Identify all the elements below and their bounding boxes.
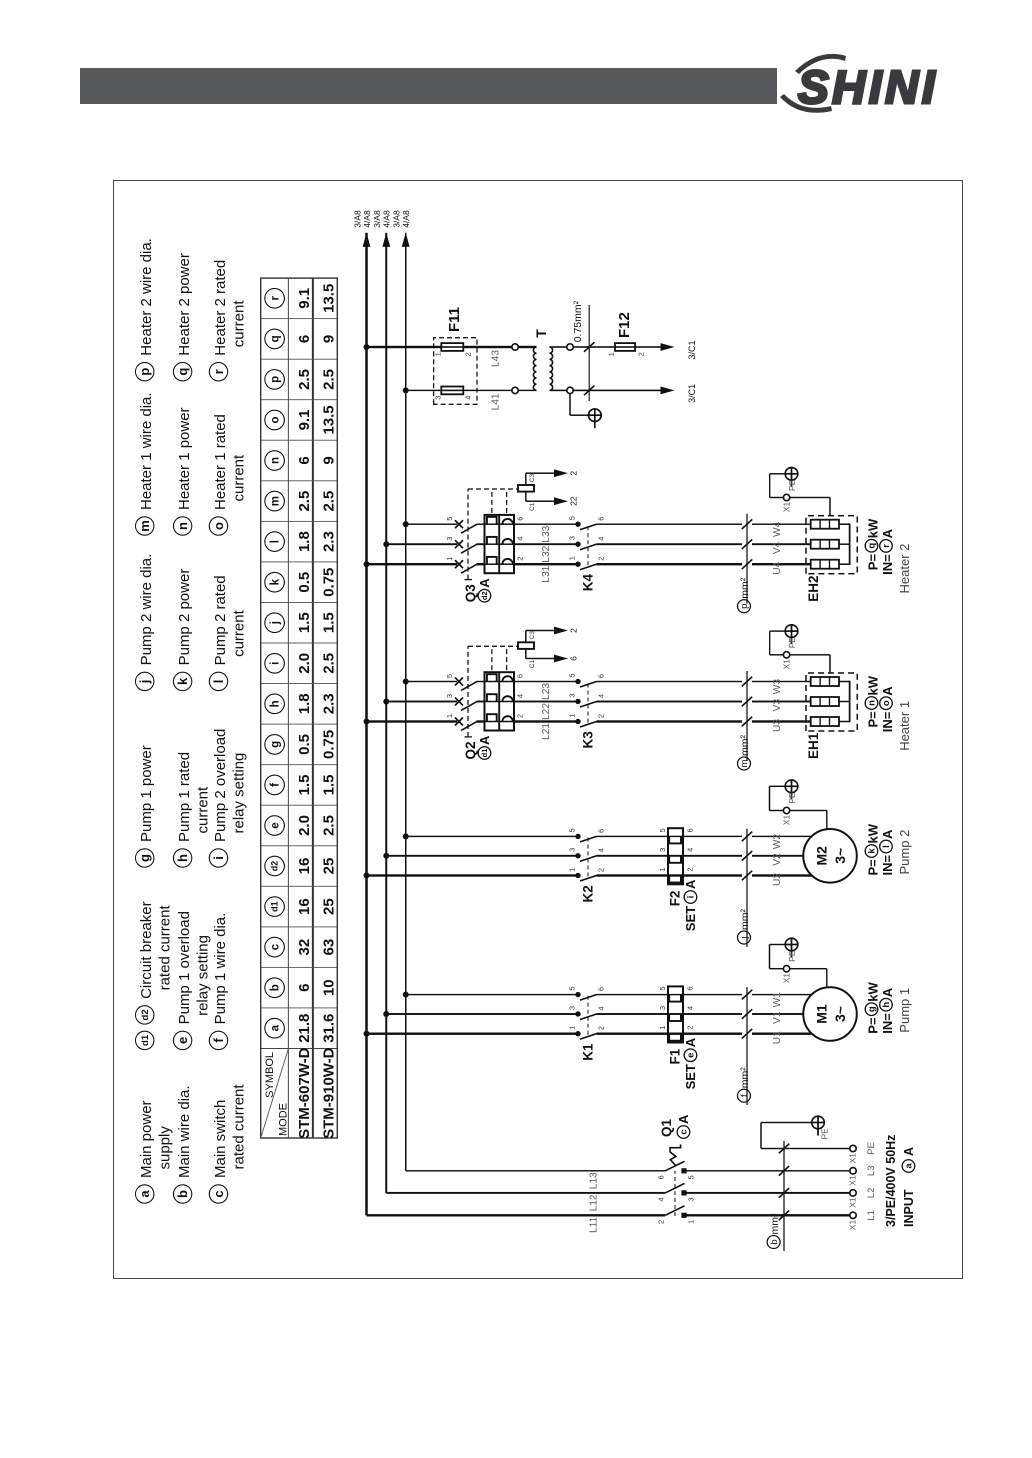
svg-text:1.8: 1.8 xyxy=(296,693,313,714)
motor M1 3~ xyxy=(803,987,857,1041)
svg-text:j: j xyxy=(137,680,152,685)
svg-text:q: q xyxy=(175,368,190,376)
svg-text:5: 5 xyxy=(568,987,577,991)
svg-text:K3: K3 xyxy=(581,731,596,749)
svg-text:a: a xyxy=(904,1163,915,1169)
legend item (g) Pump 1 power xyxy=(136,745,156,867)
svg-text:n: n xyxy=(175,522,190,530)
node: bus L11 off-page arrow 3/A8 4/A8 xyxy=(352,210,372,247)
svg-text:Main power: Main power xyxy=(138,1100,155,1178)
svg-text:3: 3 xyxy=(658,848,667,852)
svg-text:1.5: 1.5 xyxy=(296,774,313,795)
svg-text:r: r xyxy=(211,369,226,374)
header bar xyxy=(80,68,777,104)
svg-text:L31: L31 xyxy=(541,565,552,582)
svg-text:relay setting: relay setting xyxy=(230,753,247,834)
svg-text:6: 6 xyxy=(516,674,525,678)
label: pump 2 wire size (j)mm2 xyxy=(738,829,753,947)
svg-text:0.75mm²: 0.75mm² xyxy=(572,300,584,342)
label Q1 rated current (c)A xyxy=(659,1114,691,1138)
svg-text:5: 5 xyxy=(445,517,454,521)
svg-text:1: 1 xyxy=(568,867,577,871)
ground: transformer secondary earth xyxy=(570,394,601,429)
svg-text:U1: U1 xyxy=(772,1031,783,1044)
svg-text:U2: U2 xyxy=(772,873,783,886)
SHINI logo xyxy=(778,40,1032,130)
svg-text:2: 2 xyxy=(597,557,606,561)
svg-text:3~: 3~ xyxy=(832,1006,848,1022)
svg-text:A: A xyxy=(683,879,698,889)
svg-text:A: A xyxy=(880,829,895,839)
terminal X1 row, input L1 L2 L3 PE xyxy=(848,1142,878,1230)
svg-text:4: 4 xyxy=(657,1197,666,1201)
ground: heater EH1 earth xyxy=(785,625,798,648)
svg-text:2.5: 2.5 xyxy=(296,491,313,512)
svg-text:2.3: 2.3 xyxy=(320,531,337,552)
svg-text:V4: V4 xyxy=(772,541,783,554)
svg-text:P=: P= xyxy=(866,711,881,728)
svg-text:K2: K2 xyxy=(581,885,596,902)
svg-text:4: 4 xyxy=(597,537,606,541)
svg-text:W4: W4 xyxy=(772,521,783,537)
svg-text:L11: L11 xyxy=(589,1216,600,1233)
svg-text:X1: X1 xyxy=(782,973,792,984)
svg-text:21.8: 21.8 xyxy=(296,1014,313,1043)
svg-text:IN=: IN= xyxy=(880,554,895,575)
svg-text:Pump 1 wire dia.: Pump 1 wire dia. xyxy=(212,913,229,1025)
svg-text:2: 2 xyxy=(597,1026,606,1030)
transformer T xyxy=(512,344,573,394)
svg-text:0.75: 0.75 xyxy=(320,568,337,597)
svg-text:Pump 2 overload: Pump 2 overload xyxy=(212,729,229,842)
svg-text:kW: kW xyxy=(866,981,881,1001)
legend item (p) Heater 2 wire dia. xyxy=(136,238,156,381)
svg-text:relay setting: relay setting xyxy=(194,935,211,1016)
svg-text:c: c xyxy=(211,1190,226,1197)
svg-text:g: g xyxy=(270,741,282,748)
svg-text:M2: M2 xyxy=(814,846,830,866)
svg-text:13.5: 13.5 xyxy=(320,405,337,434)
svg-text:a: a xyxy=(137,1190,152,1198)
svg-text:L32: L32 xyxy=(541,545,552,562)
svg-text:V2: V2 xyxy=(772,853,783,866)
svg-text:2.5: 2.5 xyxy=(320,653,337,674)
svg-text:X1: X1 xyxy=(848,1197,858,1208)
svg-text:Main wire dia.: Main wire dia. xyxy=(176,1085,193,1178)
svg-text:P=: P= xyxy=(866,859,881,876)
svg-text:p: p xyxy=(739,604,750,609)
svg-text:2: 2 xyxy=(657,1220,666,1224)
overload relay F2 xyxy=(658,828,695,884)
legend item (b) Main wire dia. xyxy=(173,1085,193,1203)
svg-text:d2: d2 xyxy=(270,861,280,872)
svg-text:IN=: IN= xyxy=(880,855,895,876)
svg-text:Q2: Q2 xyxy=(463,741,478,759)
ground: input PE earth symbol xyxy=(812,1116,830,1139)
legend item (i) Pump 2 overload xyxy=(209,729,247,868)
svg-text:kW: kW xyxy=(866,518,881,538)
svg-text:3: 3 xyxy=(568,536,577,540)
svg-text:4/A8: 4/A8 xyxy=(362,210,372,228)
svg-text:5: 5 xyxy=(658,828,667,832)
svg-text:f: f xyxy=(270,783,282,787)
svg-text:M1: M1 xyxy=(814,1004,830,1024)
svg-text:INPUT: INPUT xyxy=(902,1189,916,1227)
svg-text:F11: F11 xyxy=(446,307,463,332)
schematic frame xyxy=(113,180,963,1279)
svg-text:2: 2 xyxy=(516,714,525,718)
svg-text:PE: PE xyxy=(787,479,797,491)
svg-text:p: p xyxy=(137,368,152,376)
contactor K2 (3-pole) xyxy=(568,828,606,881)
svg-text:j: j xyxy=(270,621,282,625)
ground: motor M2 earth xyxy=(785,780,798,804)
wire: control primary taps from buses xyxy=(364,344,512,393)
node: bus L12 off-page arrow 3/A8 4/A8 xyxy=(372,210,392,247)
svg-text:6: 6 xyxy=(516,517,525,521)
contactor K3 (3-pole) xyxy=(568,673,606,727)
label Q3 (d2)A xyxy=(463,578,492,603)
svg-text:3: 3 xyxy=(568,848,577,852)
label: pump 1 wire size (f)mm2 xyxy=(738,987,753,1105)
motor M2 3~ xyxy=(803,829,857,883)
svg-text:j: j xyxy=(739,936,750,939)
svg-text:r: r xyxy=(881,544,892,548)
ground: motor M1 earth xyxy=(785,938,798,962)
svg-text:SHINI: SHINI xyxy=(798,61,938,113)
svg-text:5: 5 xyxy=(568,516,577,520)
svg-text:6: 6 xyxy=(569,656,579,661)
svg-text:T: T xyxy=(533,329,549,338)
svg-text:3/C1: 3/C1 xyxy=(687,340,697,359)
svg-text:63: 63 xyxy=(320,939,337,956)
svg-text:10: 10 xyxy=(320,979,337,996)
svg-text:mm²: mm² xyxy=(769,1213,781,1234)
wire: bus L12 with input elbow xyxy=(386,233,665,1193)
legend item (n) Heater 1 power xyxy=(173,407,193,535)
svg-text:1.5: 1.5 xyxy=(296,612,313,633)
svg-text:Main switch: Main switch xyxy=(212,1100,229,1178)
table: model ratings (MODE/SYMBOL) xyxy=(261,278,338,1139)
svg-text:mm²: mm² xyxy=(739,909,751,930)
svg-text:d1: d1 xyxy=(480,749,489,758)
svg-text:2: 2 xyxy=(464,352,473,356)
svg-text:o: o xyxy=(881,700,892,706)
svg-text:2.5: 2.5 xyxy=(320,815,337,836)
svg-text:L1: L1 xyxy=(866,1210,877,1221)
svg-text:p: p xyxy=(270,376,282,383)
svg-text:31.6: 31.6 xyxy=(320,1014,337,1043)
svg-text:d2: d2 xyxy=(140,1009,151,1020)
legend item (q) Heater 2 power xyxy=(173,253,193,381)
svg-text:4: 4 xyxy=(686,1006,695,1010)
svg-text:0.75: 0.75 xyxy=(320,730,337,759)
contactor K4 (3-pole) xyxy=(568,516,606,570)
svg-text:C3: C3 xyxy=(529,474,536,483)
svg-text:4: 4 xyxy=(597,694,606,698)
svg-text:U4: U4 xyxy=(772,561,783,574)
svg-text:X1: X1 xyxy=(848,1175,858,1186)
svg-text:Heater 1 rated: Heater 1 rated xyxy=(212,414,229,510)
svg-text:r: r xyxy=(270,296,282,301)
svg-text:U3: U3 xyxy=(772,719,783,732)
svg-text:e: e xyxy=(175,1037,190,1044)
svg-text:1: 1 xyxy=(445,557,454,561)
label: input wire size (b)mm2 xyxy=(767,1141,789,1251)
svg-text:PE: PE xyxy=(787,637,797,649)
svg-text:Heater 2 rated: Heater 2 rated xyxy=(212,260,229,356)
svg-text:PE: PE xyxy=(820,1128,830,1140)
svg-text:b: b xyxy=(270,984,282,991)
svg-text:9: 9 xyxy=(320,335,337,343)
svg-text:2: 2 xyxy=(597,714,606,718)
svg-text:c: c xyxy=(270,943,282,950)
heater EH1 (3 elements, dashed enclosure) xyxy=(806,673,857,731)
svg-text:d1: d1 xyxy=(270,901,280,912)
legend item (e) Pump 1 overload xyxy=(173,911,211,1050)
svg-text:1: 1 xyxy=(568,713,577,717)
svg-text:P=: P= xyxy=(866,554,881,571)
svg-text:Heater 2 wire dia.: Heater 2 wire dia. xyxy=(138,238,155,356)
svg-text:9: 9 xyxy=(320,456,337,464)
label: P=(g)kW IN=(h)A Pump 1 xyxy=(865,981,912,1033)
svg-text:STM-910W-D: STM-910W-D xyxy=(320,1047,337,1139)
svg-text:Pump 2 wire dia.: Pump 2 wire dia. xyxy=(138,554,155,666)
svg-text:6: 6 xyxy=(686,987,695,991)
svg-text:d1: d1 xyxy=(140,1034,151,1046)
svg-text:5: 5 xyxy=(687,1175,696,1179)
svg-text:current: current xyxy=(194,786,211,834)
svg-text:3/PE/400V 50Hz: 3/PE/400V 50Hz xyxy=(884,1135,898,1227)
svg-text:f: f xyxy=(739,1094,750,1097)
svg-text:h: h xyxy=(270,700,282,707)
svg-text:6: 6 xyxy=(597,674,606,678)
svg-text:A: A xyxy=(880,987,895,997)
fuse F11 (2 fuses, dashed enclosure) xyxy=(434,338,478,405)
svg-text:1: 1 xyxy=(658,867,667,871)
svg-text:3/A8: 3/A8 xyxy=(392,210,402,228)
svg-text:L13: L13 xyxy=(589,1172,600,1189)
wire labels L31 L32 L33 xyxy=(541,525,552,582)
svg-text:6: 6 xyxy=(296,456,313,464)
svg-text:X1: X1 xyxy=(848,1153,858,1164)
svg-text:PE: PE xyxy=(866,1142,877,1155)
svg-text:F12: F12 xyxy=(616,312,633,338)
svg-text:X1: X1 xyxy=(848,1220,858,1231)
svg-text:9.1: 9.1 xyxy=(296,410,313,431)
svg-text:A: A xyxy=(683,1037,698,1047)
svg-text:l: l xyxy=(881,845,892,848)
svg-text:L22: L22 xyxy=(541,703,552,720)
svg-text:kW: kW xyxy=(866,675,881,695)
svg-text:6: 6 xyxy=(597,987,606,991)
svg-text:3~: 3~ xyxy=(832,848,848,864)
svg-text:l: l xyxy=(211,680,226,684)
node: heater terminals U4 V4 W4 xyxy=(772,521,783,574)
legend item (h) Pump 1 rated xyxy=(173,752,211,867)
svg-text:k: k xyxy=(867,848,878,854)
circuit breaker Q3 (3-pole, dashed enclosure) xyxy=(445,489,531,580)
legend item (d) Circuit breaker xyxy=(136,901,174,1049)
wire: branch M1 phase taps from buses xyxy=(364,992,812,1037)
wire: motor M2 PE tap xyxy=(770,786,827,830)
svg-text:1: 1 xyxy=(568,1026,577,1030)
svg-text:2.0: 2.0 xyxy=(296,653,313,674)
svg-text:m: m xyxy=(137,520,152,532)
svg-text:K4: K4 xyxy=(581,573,596,591)
svg-text:3/A8: 3/A8 xyxy=(372,210,382,228)
wire: heater EH2 PE tap xyxy=(770,474,830,516)
svg-text:5: 5 xyxy=(658,987,667,991)
svg-text:X1: X1 xyxy=(782,502,792,513)
svg-text:4: 4 xyxy=(516,537,525,541)
svg-text:PE: PE xyxy=(787,950,797,962)
svg-text:rated current: rated current xyxy=(157,905,174,991)
heater EH2 (3 elements, dashed enclosure) xyxy=(806,516,857,574)
label: P=(k)kW IN=(l)A Pump 2 xyxy=(865,823,912,875)
svg-text:W3: W3 xyxy=(772,679,783,695)
svg-text:6: 6 xyxy=(657,1175,666,1179)
svg-text:3: 3 xyxy=(445,694,454,698)
wire: secondary to fuse F12 and arrows xyxy=(573,347,661,390)
legend item (m) Heater 1 wire dia. xyxy=(136,392,156,535)
svg-text:L3: L3 xyxy=(866,1166,877,1177)
svg-text:g: g xyxy=(867,1006,878,1012)
svg-text:6: 6 xyxy=(296,984,313,992)
svg-text:4: 4 xyxy=(597,848,606,852)
svg-text:V1: V1 xyxy=(772,1011,783,1024)
svg-text:e: e xyxy=(270,822,282,828)
svg-text:PE: PE xyxy=(787,792,797,804)
svg-text:25: 25 xyxy=(320,858,337,875)
legend item (c) Main switch xyxy=(209,1084,247,1204)
svg-text:L33: L33 xyxy=(541,525,552,542)
wire: branch EH1 phase taps from buses xyxy=(364,679,811,725)
svg-text:6: 6 xyxy=(597,517,606,521)
legend item (k) Pump 2 power xyxy=(173,569,193,691)
svg-text:1.8: 1.8 xyxy=(296,531,313,552)
svg-text:n: n xyxy=(270,457,282,464)
svg-text:m: m xyxy=(739,759,750,767)
svg-text:1.5: 1.5 xyxy=(320,612,337,633)
svg-text:2: 2 xyxy=(686,1026,695,1030)
wire labels L43 L41 xyxy=(491,350,502,411)
legend item (l) Pump 2 rated xyxy=(209,575,247,690)
legend item (r) Heater 2 rated xyxy=(209,260,247,381)
svg-text:L2: L2 xyxy=(866,1188,877,1199)
svg-text:Q1: Q1 xyxy=(659,1118,674,1137)
svg-text:Pump 2 rated: Pump 2 rated xyxy=(212,575,229,665)
wire labels L21 L22 L23 xyxy=(541,683,552,740)
svg-text:4/A8: 4/A8 xyxy=(401,210,411,228)
svg-text:Pump 1 rated: Pump 1 rated xyxy=(176,752,193,842)
svg-text:current: current xyxy=(230,300,247,348)
svg-text:3: 3 xyxy=(445,537,454,541)
svg-text:b: b xyxy=(175,1190,190,1198)
svg-text:2: 2 xyxy=(569,471,579,476)
svg-text:EH2: EH2 xyxy=(806,575,821,601)
svg-text:Pump 2: Pump 2 xyxy=(897,830,912,875)
svg-text:k: k xyxy=(270,578,282,585)
svg-text:3: 3 xyxy=(568,693,577,697)
svg-text:6: 6 xyxy=(296,335,313,343)
svg-text:L41: L41 xyxy=(491,393,502,410)
label Q2 (d1)A xyxy=(463,735,492,760)
svg-text:q: q xyxy=(270,335,282,342)
svg-text:IN=: IN= xyxy=(880,711,895,732)
svg-text:i: i xyxy=(686,896,697,899)
svg-text:25: 25 xyxy=(320,898,337,915)
svg-text:2: 2 xyxy=(597,868,606,872)
svg-text:2: 2 xyxy=(637,352,646,356)
svg-text:3/A8: 3/A8 xyxy=(352,210,362,228)
svg-text:SET: SET xyxy=(683,906,698,931)
svg-text:A: A xyxy=(880,528,895,538)
svg-text:mm²: mm² xyxy=(739,577,751,598)
svg-text:1: 1 xyxy=(568,556,577,560)
svg-text:22: 22 xyxy=(569,496,579,506)
svg-text:16: 16 xyxy=(296,898,313,915)
label: P=(n)kW IN=(o)A Heater 1 xyxy=(865,675,912,751)
svg-text:current: current xyxy=(230,454,247,502)
svg-text:i: i xyxy=(211,856,226,860)
svg-text:Heater 1: Heater 1 xyxy=(897,701,912,751)
svg-text:e: e xyxy=(686,1053,697,1058)
svg-text:a: a xyxy=(270,1024,282,1031)
svg-text:supply: supply xyxy=(157,1126,174,1170)
svg-text:16: 16 xyxy=(296,858,313,875)
svg-text:1: 1 xyxy=(658,1026,667,1030)
svg-text:SYMBOL: SYMBOL xyxy=(264,1052,276,1098)
svg-text:6: 6 xyxy=(686,828,695,832)
svg-text:f: f xyxy=(211,1038,226,1043)
svg-text:MODE: MODE xyxy=(278,1103,290,1136)
legend item (j) Pump 2 wire dia. xyxy=(136,554,156,691)
svg-text:0.5: 0.5 xyxy=(296,572,313,593)
svg-text:F1: F1 xyxy=(668,1048,683,1064)
label F2 SET (i)A xyxy=(668,879,699,931)
svg-text:q: q xyxy=(867,543,878,549)
svg-text:h: h xyxy=(175,854,190,862)
svg-text:1: 1 xyxy=(445,714,454,718)
svg-text:L43: L43 xyxy=(491,350,502,367)
svg-text:rated current: rated current xyxy=(230,1084,247,1170)
node: bus L13 off-page arrow 3/A8 4/A8 xyxy=(392,210,412,247)
svg-text:A: A xyxy=(902,1147,916,1156)
svg-text:mm²: mm² xyxy=(739,735,751,756)
svg-text:2.3: 2.3 xyxy=(320,693,337,714)
svg-text:1: 1 xyxy=(607,352,616,356)
svg-text:STM-607W-D: STM-607W-D xyxy=(296,1047,313,1139)
label: heater 1 wire size (m)mm2 xyxy=(738,671,753,770)
svg-text:13.5: 13.5 xyxy=(320,284,337,313)
svg-text:3: 3 xyxy=(658,1006,667,1010)
main switch Q1 (3-pole with operator) xyxy=(657,1144,854,1224)
node: heater terminals U3 V3 W3 xyxy=(772,679,783,732)
fuse F12 xyxy=(607,343,646,356)
svg-text:4: 4 xyxy=(686,848,695,852)
svg-text:L12: L12 xyxy=(589,1194,600,1211)
svg-text:V3: V3 xyxy=(772,699,783,712)
svg-text:2.5: 2.5 xyxy=(320,491,337,512)
circuit breaker Q2 (3-pole, dashed enclosure) xyxy=(445,646,531,737)
auxiliary contact of Q2 with off-page arrows xyxy=(518,627,579,669)
svg-text:6: 6 xyxy=(597,829,606,833)
legend item (o) Heater 1 rated xyxy=(209,414,247,535)
svg-text:k: k xyxy=(175,677,190,685)
wire: input PE with earth xyxy=(761,1123,850,1149)
label F1 SET (e)A xyxy=(668,1037,699,1089)
